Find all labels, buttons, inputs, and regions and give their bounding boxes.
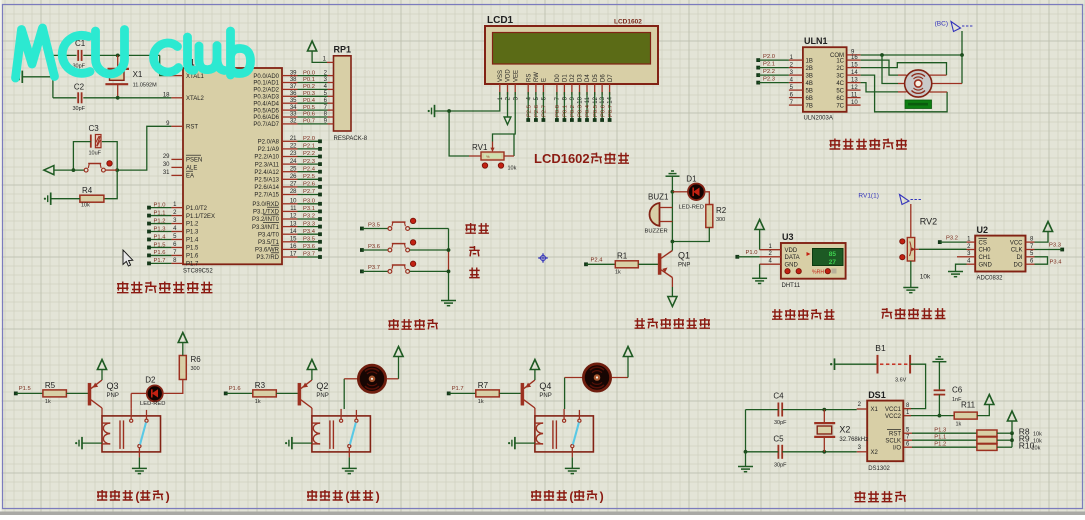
wire pullup to power xyxy=(1011,431,1013,433)
pin 10 7C ULN xyxy=(847,104,861,106)
svg-text:P1.5: P1.5 xyxy=(186,246,199,252)
wire P3.6 to button xyxy=(362,249,388,251)
svg-text:P2.7/A15: P2.7/A15 xyxy=(254,193,279,199)
wire button right xyxy=(105,169,117,171)
junction D1 node xyxy=(671,190,675,194)
svg-text:5C: 5C xyxy=(836,88,844,94)
svg-text:LCD1: LCD1 xyxy=(487,15,514,26)
wire P0.2 to RP1 xyxy=(298,88,328,90)
wire motor right to power xyxy=(387,378,399,380)
transistor Q3 xyxy=(88,383,91,405)
label sound-light alarm xyxy=(635,318,646,328)
svg-text:29: 29 xyxy=(163,154,170,160)
svg-text:2B: 2B xyxy=(806,66,813,72)
svg-text:E: E xyxy=(542,78,548,82)
pin 6 I/O DS1 xyxy=(904,446,912,448)
power VCC (motor 2) xyxy=(394,347,403,357)
svg-text:10k: 10k xyxy=(1032,446,1041,452)
svg-text:6C: 6C xyxy=(836,96,844,102)
svg-text:P2.2: P2.2 xyxy=(763,69,775,75)
wire 1C to motor xyxy=(861,60,898,75)
wire net P0.2 LCD xyxy=(571,92,573,119)
wire net P0.5 LCD xyxy=(594,92,596,119)
LED D1 xyxy=(672,191,688,193)
svg-text:D6: D6 xyxy=(600,74,606,82)
pin 3 P1.2 xyxy=(171,223,183,225)
node P2.1 xyxy=(318,147,322,151)
svg-text:PNP: PNP xyxy=(316,393,328,399)
svg-text:21: 21 xyxy=(290,136,297,142)
resistor R5 xyxy=(43,390,67,397)
power VCC (motor 3) xyxy=(623,347,632,357)
pin 6 RP1 xyxy=(328,102,334,104)
svg-text:P2.4/A12: P2.4/A12 xyxy=(254,170,279,176)
resistor pack RP1 body xyxy=(334,56,352,131)
pin 3 3B ULN xyxy=(789,74,803,76)
wire net P3.4 xyxy=(298,233,320,235)
resistor R3 xyxy=(253,390,276,397)
svg-text:P3.3: P3.3 xyxy=(303,221,315,227)
wire DI-DO jumper xyxy=(1035,257,1048,264)
junction X1 bottom xyxy=(116,96,120,100)
svg-text:5B: 5B xyxy=(806,88,813,94)
svg-text:RESPACK-8: RESPACK-8 xyxy=(334,136,368,142)
wire net P3.2 xyxy=(298,218,320,220)
svg-text:XTAL2: XTAL2 xyxy=(186,96,205,102)
wire net P1.2 xyxy=(149,223,171,225)
wire net P1.7 xyxy=(149,262,171,264)
wire net P2.4 xyxy=(298,171,320,173)
wire C2 right to XTAL2 xyxy=(83,97,117,99)
pin 1 1B ULN xyxy=(789,59,803,61)
junction COM 1 xyxy=(880,53,884,57)
svg-text:6B: 6B xyxy=(806,96,813,102)
svg-text:85: 85 xyxy=(829,251,837,258)
ground (C4 C5) xyxy=(738,466,753,468)
pin 3 RP1 xyxy=(328,82,334,84)
svg-text:DS1: DS1 xyxy=(868,390,886,400)
IC U2 body (ADC0832) xyxy=(975,236,1025,272)
svg-text:3.6V: 3.6V xyxy=(895,378,907,384)
wire net P3.3 xyxy=(298,226,320,228)
svg-text:RV1: RV1 xyxy=(472,143,488,152)
LED D2 xyxy=(130,393,132,409)
node P3.1 xyxy=(318,210,322,214)
relay switch Q3 xyxy=(130,419,133,422)
svg-text:U2: U2 xyxy=(977,225,989,235)
wire VEE to RV1 xyxy=(493,92,516,142)
wire gnd to caps xyxy=(22,76,53,78)
svg-text:P1.7: P1.7 xyxy=(186,262,199,268)
wire net P3.0 xyxy=(298,203,320,205)
pin 8 P1.7 xyxy=(171,262,183,264)
junction pullup 1 xyxy=(1010,431,1014,435)
svg-text:3B: 3B xyxy=(806,73,813,79)
power down arrow (Q1) xyxy=(668,297,677,307)
node P0.0 LCD xyxy=(555,118,559,122)
IC U3 body (DHT11) xyxy=(781,243,846,279)
pin 6 DO U2 xyxy=(1026,263,1035,265)
pin 7 P1.6 xyxy=(171,254,183,256)
wire C3 right vertical xyxy=(102,142,117,171)
svg-text:10: 10 xyxy=(578,96,584,103)
svg-text:PNP: PNP xyxy=(678,263,690,269)
svg-text:P3.7: P3.7 xyxy=(368,265,380,271)
node P2.7 LCD xyxy=(542,118,546,122)
wire P3.2 to CS xyxy=(940,241,967,243)
wire relay common down xyxy=(348,448,350,458)
svg-text:P2.5: P2.5 xyxy=(526,105,532,117)
svg-text:ALE: ALE xyxy=(186,166,197,172)
DHT leds xyxy=(785,269,790,274)
wire net P1.3 xyxy=(149,231,171,233)
svg-text:P0.2: P0.2 xyxy=(570,105,576,117)
wire relay common down xyxy=(138,448,140,458)
pin 2 DATA U3 xyxy=(760,256,781,258)
junction X2 top xyxy=(822,408,826,412)
capacitor C3 xyxy=(90,135,92,148)
svg-text:1k: 1k xyxy=(478,399,484,405)
svg-text:%: % xyxy=(486,154,490,159)
svg-text:P3.3/INT1: P3.3/INT1 xyxy=(252,225,280,231)
svg-text:Q4: Q4 xyxy=(539,381,551,391)
power VCC (U2) xyxy=(1043,222,1052,232)
svg-text:P0.0: P0.0 xyxy=(555,105,561,117)
junction button left xyxy=(72,168,76,172)
wire P1.7 to R7 xyxy=(449,392,476,394)
ground (coil Q2) xyxy=(291,437,293,449)
wire B1 to VCC1 xyxy=(904,364,926,408)
power VDD down arrow xyxy=(507,92,509,117)
svg-text:P3.4/T0: P3.4/T0 xyxy=(258,232,280,238)
svg-text:D7: D7 xyxy=(608,74,614,82)
svg-text:34: 34 xyxy=(290,105,297,111)
node P3.6 key xyxy=(360,248,364,252)
svg-text:1k: 1k xyxy=(255,399,261,405)
svg-text:22: 22 xyxy=(290,144,297,150)
mouse cursor xyxy=(123,250,133,266)
svg-text:R3: R3 xyxy=(255,381,266,390)
svg-text:10: 10 xyxy=(290,199,297,205)
pin 21 P2.0 xyxy=(282,140,298,142)
svg-text:4C: 4C xyxy=(836,81,844,87)
svg-text:ULN1: ULN1 xyxy=(804,36,828,46)
potentiometer RV1 xyxy=(469,155,481,157)
wire C5 row xyxy=(746,451,779,453)
wire net P2.6 LCD xyxy=(535,92,537,119)
push button P3.5 xyxy=(388,227,392,231)
pin 2 2B ULN xyxy=(789,67,803,69)
svg-text:10k: 10k xyxy=(508,166,517,172)
pin 5 RST DS1 xyxy=(904,432,912,434)
wire probe to COM xyxy=(961,31,963,55)
svg-text:10uF: 10uF xyxy=(89,151,102,157)
svg-text:P3.5: P3.5 xyxy=(368,222,380,228)
svg-text:PNP: PNP xyxy=(107,393,119,399)
wire P0.1 to RP1 xyxy=(298,82,328,84)
node P0.7 LCD xyxy=(608,118,612,122)
wire D1 to R2 xyxy=(705,192,710,205)
label four-phase stepper motor xyxy=(830,139,841,150)
svg-text:P1.3: P1.3 xyxy=(934,427,946,433)
svg-text:P3.2: P3.2 xyxy=(303,214,315,220)
pin 28 P2.7 xyxy=(282,194,298,196)
svg-text:RV2: RV2 xyxy=(920,217,937,227)
wire net P2.5 LCD xyxy=(527,92,529,119)
node P1.6 relay xyxy=(224,392,228,396)
pin 16 P3.6 xyxy=(282,248,298,250)
svg-text:P3.0: P3.0 xyxy=(303,199,315,205)
pin 1 CS U2 xyxy=(967,241,976,243)
svg-text:RP1: RP1 xyxy=(334,45,352,55)
ground (U2) xyxy=(948,271,963,273)
svg-text:P1.3: P1.3 xyxy=(154,226,166,232)
svg-text:D3: D3 xyxy=(578,74,584,82)
wire Q4 emitter xyxy=(534,370,536,381)
svg-text:%RH: %RH xyxy=(812,270,824,276)
svg-text:P2.1/A9: P2.1/A9 xyxy=(258,147,280,153)
svg-text:32.768kHz: 32.768kHz xyxy=(839,437,868,443)
wire VSS to gnd xyxy=(435,92,500,111)
resistor R7 xyxy=(476,390,500,397)
svg-text:4B: 4B xyxy=(806,81,813,87)
wire P3.5 to button xyxy=(362,228,388,230)
pin 30 ALE xyxy=(171,166,183,168)
pin 10 P3.0 xyxy=(282,203,298,205)
svg-text:15: 15 xyxy=(851,62,858,68)
pin 13 4C ULN xyxy=(847,82,861,84)
svg-text:7C: 7C xyxy=(836,103,844,109)
pin 5 P1.4 xyxy=(171,238,183,240)
svg-text:RW: RW xyxy=(534,72,540,82)
wire net P1.1 xyxy=(149,215,171,217)
ground up (buzzer top) xyxy=(666,175,680,177)
svg-text:PNP: PNP xyxy=(539,393,551,399)
node P1.3 xyxy=(147,230,151,234)
wire to XTAL1 pin xyxy=(160,55,172,75)
svg-text:P0.5/AD5: P0.5/AD5 xyxy=(253,108,279,114)
svg-text:P3.5: P3.5 xyxy=(303,237,315,243)
svg-text:P3.3: P3.3 xyxy=(1049,243,1061,249)
svg-text:P3.6: P3.6 xyxy=(368,244,380,250)
pin 5 5B ULN xyxy=(789,89,803,91)
node P2.1 ULN xyxy=(756,66,760,70)
wire net P2.0 xyxy=(298,140,320,142)
svg-text:GND: GND xyxy=(979,262,993,268)
logo MCUclub xyxy=(16,28,55,78)
svg-text:C5: C5 xyxy=(773,435,784,444)
node P1.7 relay xyxy=(447,392,451,396)
pin 2 X1 DS1 xyxy=(857,408,868,410)
wire SCLK net xyxy=(912,439,977,441)
node P2.6 LCD xyxy=(534,118,538,122)
svg-text:VSS: VSS xyxy=(498,70,504,82)
pin 12 5C ULN xyxy=(847,89,861,91)
label MCU minimal system xyxy=(117,282,129,294)
wire VCC2 net xyxy=(904,415,954,417)
svg-text:P0.5: P0.5 xyxy=(593,105,599,117)
svg-text:): ) xyxy=(166,489,170,503)
junction X1 top xyxy=(116,54,120,58)
wire RST net xyxy=(117,126,171,170)
svg-text:33: 33 xyxy=(290,112,297,118)
junction X2 bottom xyxy=(822,450,826,454)
pin 9 RP1 xyxy=(328,123,334,125)
pin 3 X2 DS1 xyxy=(857,451,868,453)
wire button P3.6 to bus xyxy=(410,249,449,251)
svg-text:P1.2: P1.2 xyxy=(186,222,199,228)
pin 5 DI U2 xyxy=(1026,256,1035,258)
node P1.6 xyxy=(147,254,151,258)
svg-text:(BC): (BC) xyxy=(935,21,948,28)
resistor R2 xyxy=(706,205,713,228)
pin 2 RP1 xyxy=(328,75,334,77)
wire net P3.7 xyxy=(298,256,320,258)
svg-text:LCD1602: LCD1602 xyxy=(614,19,642,26)
wire net P0.1 LCD xyxy=(563,92,565,119)
node P1.5 relay xyxy=(14,392,18,396)
pin 7 RP1 xyxy=(328,109,334,111)
node P2.5 xyxy=(318,177,322,181)
motor value box xyxy=(905,100,932,109)
svg-text:P3.7: P3.7 xyxy=(303,252,315,258)
svg-text:ADC0832: ADC0832 xyxy=(977,276,1004,282)
node P0.4 LCD xyxy=(585,118,589,122)
svg-text:P1.3: P1.3 xyxy=(186,230,199,236)
node P3.5 key xyxy=(360,227,364,231)
svg-text:P3.7/RD: P3.7/RD xyxy=(256,255,279,261)
node P1.0 DHT xyxy=(735,255,739,259)
svg-text:P1.6: P1.6 xyxy=(154,250,166,256)
pin 16 1C ULN xyxy=(847,59,861,61)
pin 19 XTAL1 xyxy=(171,75,183,77)
node P3.2 ADC xyxy=(938,240,942,244)
wire R6 top xyxy=(182,343,184,356)
ground (relay Q2) xyxy=(342,467,357,469)
svg-text:11: 11 xyxy=(585,96,591,103)
wire R8 right xyxy=(997,432,1012,434)
svg-text:28: 28 xyxy=(290,189,297,195)
svg-text:P0.2: P0.2 xyxy=(303,84,315,90)
svg-text:CH1: CH1 xyxy=(979,255,992,261)
relay coil box Q4 xyxy=(535,416,594,452)
buzzer BUZ1 xyxy=(650,203,660,226)
svg-text:D5: D5 xyxy=(593,74,599,82)
wire R10 right xyxy=(997,446,1012,448)
pin 25 P2.4 xyxy=(282,171,298,173)
wire to gnd (C5) xyxy=(745,452,747,467)
svg-text:P0.7: P0.7 xyxy=(303,119,315,125)
wire I/O net xyxy=(912,446,977,448)
pin 15 P3.5 xyxy=(282,241,298,243)
pin 9 RST xyxy=(171,125,183,127)
svg-text:P2.0: P2.0 xyxy=(303,136,315,142)
pin 4 4B ULN xyxy=(789,82,803,84)
wire P1.0 to DATA xyxy=(737,256,759,258)
pin 7 SCLK DS1 xyxy=(904,439,912,441)
svg-text:17: 17 xyxy=(290,252,297,258)
svg-text:CH0: CH0 xyxy=(979,248,992,254)
junction pullup 2 xyxy=(1010,438,1014,442)
power VCC (U3) xyxy=(755,220,764,230)
wire XTAL2 xyxy=(118,97,172,99)
svg-text:B1: B1 xyxy=(875,343,886,353)
svg-text:36: 36 xyxy=(290,91,297,97)
node P0.5 LCD xyxy=(593,118,597,122)
svg-text:16: 16 xyxy=(851,55,858,61)
pin 31 EA xyxy=(171,174,183,176)
svg-text:R11: R11 xyxy=(961,401,976,410)
pin 39 P0.0 xyxy=(282,75,298,77)
svg-text:CS: CS xyxy=(979,240,987,246)
svg-text:U3: U3 xyxy=(782,232,794,242)
pin 11 P3.1 xyxy=(282,210,298,212)
svg-text:12: 12 xyxy=(593,96,599,103)
op-amp U1 body (STC89C52) xyxy=(183,68,282,264)
svg-text:31: 31 xyxy=(163,170,170,176)
svg-text:27: 27 xyxy=(829,259,837,266)
wire gnd to D1 node xyxy=(671,176,673,192)
svg-text:P2.1: P2.1 xyxy=(763,62,775,68)
wire 2C to motor xyxy=(861,63,947,75)
wire R9 right xyxy=(997,439,1012,441)
svg-text:VCC1: VCC1 xyxy=(885,407,902,413)
svg-text:P2.3/A11: P2.3/A11 xyxy=(255,162,280,168)
svg-text:RS: RS xyxy=(526,74,532,82)
svg-text:10k: 10k xyxy=(920,274,931,281)
ground (keys) xyxy=(441,300,456,302)
svg-text:26: 26 xyxy=(290,174,297,180)
node P3.3 xyxy=(318,225,322,229)
wire C4-C5 left bus xyxy=(745,410,747,452)
svg-text:DI: DI xyxy=(1017,255,1023,261)
wire RV1 right leg xyxy=(513,134,515,156)
wire Q2 collector xyxy=(311,408,313,416)
svg-text:R7: R7 xyxy=(478,381,489,390)
label minus xyxy=(469,268,480,278)
svg-text:11.0592M: 11.0592M xyxy=(133,83,157,89)
wire RP1 pin1 xyxy=(312,51,327,62)
label relay section xyxy=(531,490,541,500)
svg-text:P1.1: P1.1 xyxy=(154,210,166,216)
pin 6 P1.5 xyxy=(171,246,183,248)
svg-text:30pF: 30pF xyxy=(774,420,787,426)
svg-text:RST: RST xyxy=(889,431,901,437)
svg-text:P2.7: P2.7 xyxy=(542,105,548,117)
junction caps gnd xyxy=(51,75,55,79)
svg-text:CLK: CLK xyxy=(1011,248,1023,254)
svg-text:): ) xyxy=(376,489,380,503)
svg-text:VDD: VDD xyxy=(785,248,798,254)
wire Q3 emitter xyxy=(101,370,103,381)
svg-text:D4: D4 xyxy=(585,74,591,82)
svg-text:32: 32 xyxy=(290,119,297,125)
pin 4 GND U2 xyxy=(967,263,976,265)
svg-text:Q1: Q1 xyxy=(678,251,690,261)
wire R7 to Q4 xyxy=(499,392,521,394)
svg-text:R5: R5 xyxy=(45,381,56,390)
junction key bus 2 xyxy=(447,270,451,274)
wire P0.0 to RP1 xyxy=(298,75,328,77)
wire R1 to Q1 base xyxy=(638,263,658,265)
junction Q1 collector node xyxy=(671,240,675,244)
wire Q1 emitter up xyxy=(671,242,673,251)
svg-text:P1.7: P1.7 xyxy=(452,386,464,392)
svg-text:1k: 1k xyxy=(615,270,621,276)
node P3.4 xyxy=(318,232,322,236)
ground (relay Q4) xyxy=(565,467,580,469)
wire RST net xyxy=(912,432,977,434)
